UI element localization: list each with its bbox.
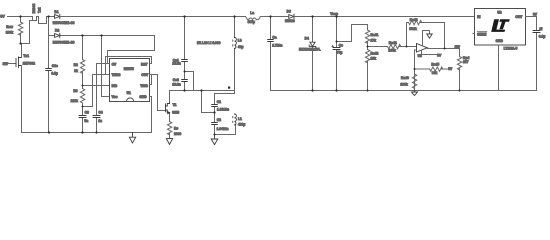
- junction Ra45 left on riser: [414, 68, 416, 70]
- op-amp V- pin to 5V: [422, 50, 437, 54]
- node marker on tank rail: [228, 87, 230, 89]
- svg-text:RST: RST: [141, 62, 148, 66]
- svg-text:Re: Re: [174, 126, 178, 130]
- svg-text:Ra44: Ra44: [389, 41, 397, 45]
- svg-text:BZX84B12VL: BZX84B12VL: [299, 48, 321, 52]
- svg-text:R2: R2: [74, 63, 78, 67]
- op-amp U3: [417, 44, 428, 53]
- ground (right rail): [412, 91, 418, 96]
- ground (C2/L1 tank): [211, 135, 218, 145]
- svg-text:6.3µ: 6.3µ: [539, 35, 546, 39]
- junction Lb riser on top rail: [233, 15, 235, 17]
- wire Rsw bottom to transformer branch: [21, 43, 30, 45]
- svg-text:D2: D2: [55, 29, 59, 33]
- wire top rail to La: [235, 16, 246, 18]
- junction Rpd bottom on right rail: [459, 90, 461, 92]
- junction Ra41-Ra42 node: [367, 46, 369, 48]
- inductor Lb 43u (vertical, on x=234.5): [234, 17, 236, 94]
- junction Vcc riser on wire2: [100, 34, 102, 36]
- svg-text:Ra45: Ra45: [431, 63, 439, 67]
- svg-text:SHDN: SHDN: [477, 32, 487, 36]
- wire top rail to D1: [47, 16, 55, 18]
- wire GND pin down to left ground rail: [150, 97, 152, 133]
- wire loop wire2-end to CV stub: [108, 36, 155, 64]
- svg-text:Lb: Lb: [238, 38, 242, 42]
- wire +input riser x=414.5: [415, 50, 417, 91]
- svg-text:Vcap: Vcap: [330, 12, 338, 16]
- svg-text:Ra46: Ra46: [401, 76, 409, 80]
- junction C4 bottom on left rail: [95, 131, 97, 133]
- wire top rail y=16.5 from 5V to transformer: [8, 16, 33, 18]
- transformer Tx2 winding B loop: [37, 17, 47, 24]
- svg-text:1.719n: 1.719n: [272, 44, 282, 48]
- svg-text:1.0423n: 1.0423n: [217, 127, 229, 131]
- resistor Ra45 80k to 5V: [415, 67, 448, 71]
- svg-text:NE555: NE555: [124, 67, 134, 71]
- wire U2 GND pin to rail: [498, 45, 500, 91]
- svg-text:100k: 100k: [388, 48, 395, 52]
- svg-text:430µ: 430µ: [238, 123, 245, 127]
- IC U2 LT1121-5 box: [475, 9, 526, 46]
- ground (left rail): [129, 133, 135, 144]
- bottom rail (right section) y=91.5: [271, 90, 537, 92]
- svg-text:Ra42: Ra42: [371, 52, 379, 56]
- wire C1 branch: tank rail down-left path: [202, 91, 215, 113]
- svg-text:Ce: Ce: [339, 43, 343, 47]
- transformer Tx2 winding A loop: [33, 17, 37, 21]
- svg-text:2N7002: 2N7002: [23, 61, 35, 65]
- svg-text:Cl: Cl: [539, 27, 542, 31]
- wire loop RST to THRS stub: [106, 57, 152, 75]
- svg-text:80k: 80k: [432, 71, 438, 75]
- svg-text:8k: 8k: [74, 69, 78, 73]
- svg-text:C3e: C3e: [52, 64, 58, 68]
- svg-text:367µ: 367µ: [248, 20, 255, 24]
- wire Tx1 drain up to Rsw node: [21, 44, 22, 58]
- junction Cc1-Cc2 node: [184, 71, 186, 73]
- svg-text:SW: SW: [3, 62, 9, 66]
- svg-text:OUT: OUT: [141, 73, 148, 77]
- wire top rail to L-branch: [185, 16, 235, 18]
- resistor Ra43 500k (feedback, horizontal): [407, 20, 445, 48]
- svg-text:1n: 1n: [98, 119, 102, 123]
- svg-text:C3: C3: [85, 111, 89, 115]
- capacitor Ce 70u (Vcap): [336, 17, 338, 91]
- ground (T1 emitter): [166, 139, 172, 145]
- wire C1 top rail: [215, 91, 235, 94]
- svg-text:1.8181n: 1.8181n: [217, 108, 229, 112]
- wire OUT stub to T1 base: [150, 75, 166, 111]
- svg-text:TRIG: TRIG: [140, 84, 148, 88]
- diode D2 RB500EM-30: [55, 33, 60, 38]
- junction R2 top on wire2: [81, 34, 83, 36]
- IC U1 NE555 box: [110, 59, 150, 102]
- svg-text:13.3n: 13.3n: [172, 83, 180, 87]
- resistor Ra42 10k: [365, 47, 369, 91]
- svg-text:GND: GND: [496, 39, 504, 43]
- junction C3e bottom on left rail: [48, 131, 50, 133]
- wire U2 OUT to 5V node: [526, 16, 537, 18]
- junction C1-C2 node: [213, 111, 215, 113]
- bottom rail (left section) y=132.5: [22, 132, 152, 134]
- svg-text:RB500EM-30: RB500EM-30: [53, 21, 75, 25]
- svg-text:5n: 5n: [84, 119, 88, 123]
- capacitor C3e 0.5u (on vertical x=48.5): [48, 36, 50, 133]
- diode D3 1N914: [289, 14, 294, 19]
- junction C3 bottom on left rail: [81, 131, 83, 133]
- junction C1 branch on tank rail: [200, 89, 202, 91]
- capacitor C3 5n: [82, 107, 84, 133]
- junction Ra43 left / Ra44 right: [406, 46, 408, 48]
- wire CV stub to C4 riser: [97, 63, 110, 65]
- resistor R3 120k (below DIS junction): [80, 86, 84, 107]
- capacitor Cc1 13.3n (on riser x=184.5): [184, 17, 186, 72]
- capacitor Ca 1.719n: [270, 17, 272, 91]
- svg-text:La: La: [250, 11, 254, 15]
- wire Cc branch (71.5 to tank rail): [185, 72, 194, 91]
- svg-text:1000: 1000: [174, 132, 181, 136]
- svg-text:GND: GND: [139, 95, 147, 99]
- node 5V (top-left label): [0, 0, 1, 1]
- svg-text:T1: T1: [173, 103, 177, 107]
- svg-text:500k: 500k: [409, 27, 416, 31]
- svg-text:43µ: 43µ: [238, 45, 244, 49]
- svg-text:13.3n: 13.3n: [172, 62, 180, 66]
- wire C2 bottom / L1 bottom link: [215, 125, 236, 135]
- wire top rail D3 to U2 IN: [294, 16, 475, 18]
- zener D4 BZX84B12VL: [312, 17, 314, 91]
- svg-text:100k: 100k: [400, 82, 407, 86]
- svg-text:U2: U2: [497, 10, 501, 14]
- svg-text:OUT: OUT: [515, 15, 522, 19]
- svg-text:Ra43: Ra43: [410, 18, 418, 22]
- capacitor Cc2 13.3n: [184, 72, 186, 91]
- svg-text:Ca: Ca: [272, 36, 276, 40]
- svg-text:70µ: 70µ: [337, 50, 343, 54]
- wire tank rail y=91.5: [172, 90, 235, 92]
- junction D-branch on 5V rail: [47, 15, 49, 17]
- svg-text:17k: 17k: [371, 38, 377, 42]
- junction Ce bottom on right rail: [335, 89, 337, 91]
- junction Rsw top on 5V rail: [19, 15, 21, 17]
- svg-text:D1: D1: [54, 10, 58, 14]
- transistor T1 3113: [166, 102, 170, 115]
- wire top rail D1 to Cc junction: [60, 16, 185, 18]
- wire THRS stub to R3 bottom: [83, 75, 110, 107]
- wire Vcc riser x=101.5: [102, 36, 110, 97]
- wire top rail La to D3: [261, 16, 289, 18]
- svg-text:C2: C2: [217, 118, 221, 122]
- junction Cc riser on top rail: [183, 15, 185, 17]
- svg-text:100k: 100k: [6, 30, 13, 34]
- svg-text:D4: D4: [305, 37, 309, 41]
- wire T1 collector to tank rail: [170, 91, 172, 102]
- resistor Ra46 100k (on +input riser): [412, 74, 416, 89]
- junction D4 bottom on right rail: [311, 89, 313, 91]
- transformer primary return branch: [30, 21, 33, 44]
- resistor Re 1000 (T1 emitter): [167, 115, 171, 139]
- junction D4 riser on top rail: [311, 15, 313, 17]
- svg-text:C1: C1: [217, 100, 221, 104]
- inductor L1 430u (vertical lower): [235, 114, 237, 125]
- op-amp V+ pin to ground arrow: [423, 31, 430, 46]
- inductor La 367u (inline valley): [246, 17, 249, 20]
- wire staircase Ce node to Ra41: [337, 25, 368, 42]
- svg-text:3113: 3113: [172, 110, 179, 114]
- svg-text:U1: U1: [127, 91, 131, 95]
- svg-text:Ra41: Ra41: [371, 33, 379, 37]
- junction R3 bottom / THRS: [82, 106, 84, 108]
- wire branch from top rail down to second rail: [48, 17, 50, 36]
- svg-text:Tx1: Tx1: [23, 54, 29, 58]
- junction DIS node: [82, 85, 84, 87]
- svg-text:DIS: DIS: [112, 84, 118, 88]
- svg-text:LT1121-5: LT1121-5: [504, 46, 518, 50]
- wire TRIG stub riser: [150, 75, 152, 85]
- resistor Ra44 100k (horizontal): [368, 44, 417, 48]
- resistor Rsw 100k: [18, 17, 22, 44]
- LT logo: [491, 19, 510, 32]
- junction Ra42 bottom on right rail: [367, 90, 369, 92]
- resistor Rpd 2k7: [457, 49, 461, 91]
- junction feedback on output: [444, 48, 446, 50]
- svg-text:10k: 10k: [371, 56, 377, 60]
- svg-text:C4: C4: [98, 111, 102, 115]
- capacitor Cl 6.3u: [536, 17, 538, 91]
- ground (op-amp V+): [427, 34, 432, 38]
- capacitor C2 1.0423n: [214, 113, 216, 135]
- capacitor C4 1n: [96, 64, 98, 133]
- junction C2 bottom node: [214, 134, 216, 136]
- junction Cc2 bottom on tank rail: [183, 89, 185, 91]
- svg-text:Vcc: Vcc: [112, 95, 118, 99]
- svg-text:R3: R3: [73, 89, 77, 93]
- wire Tx1 source down to left rail: [21, 66, 23, 133]
- junction Ca riser on top rail: [269, 15, 271, 17]
- wire DIS stub: [83, 85, 110, 87]
- svg-text:RB500EM-30: RB500EM-30: [53, 40, 75, 44]
- wire second rail y=35.5: [49, 35, 155, 37]
- svg-text:5V: 5V: [0, 15, 5, 19]
- svg-text:Tx2: Tx2: [38, 7, 42, 13]
- svg-text:120k: 120k: [71, 99, 78, 103]
- junction Ce node on staircase: [336, 41, 338, 43]
- svg-text:Cc2: Cc2: [173, 78, 179, 82]
- resistor Ra41 17k: [365, 30, 369, 47]
- diode D1 RB500EM-30: [55, 14, 60, 19]
- resistor R2 8k (on vertical x=82.5): [80, 36, 84, 86]
- svg-text:0.5µ: 0.5µ: [51, 72, 58, 76]
- junction Vcap node on top rail: [335, 15, 337, 17]
- junction Rsw bottom / Tx1 drain: [19, 42, 21, 44]
- op-amp output wire to SW: [427, 48, 459, 50]
- svg-text:K1 L10 Li 0.006: K1 L10 Li 0.006: [197, 41, 221, 45]
- svg-text:B1044: B1044: [32, 4, 36, 14]
- svg-text:D3: D3: [287, 10, 291, 14]
- svg-text:Rsw: Rsw: [6, 25, 13, 29]
- svg-text:L1: L1: [238, 117, 242, 121]
- svg-text:1N914: 1N914: [285, 19, 295, 23]
- capacitor C1 1.8181n: [214, 94, 216, 113]
- svg-text:2k7: 2k7: [463, 60, 469, 64]
- svg-text:THRS: THRS: [112, 73, 122, 77]
